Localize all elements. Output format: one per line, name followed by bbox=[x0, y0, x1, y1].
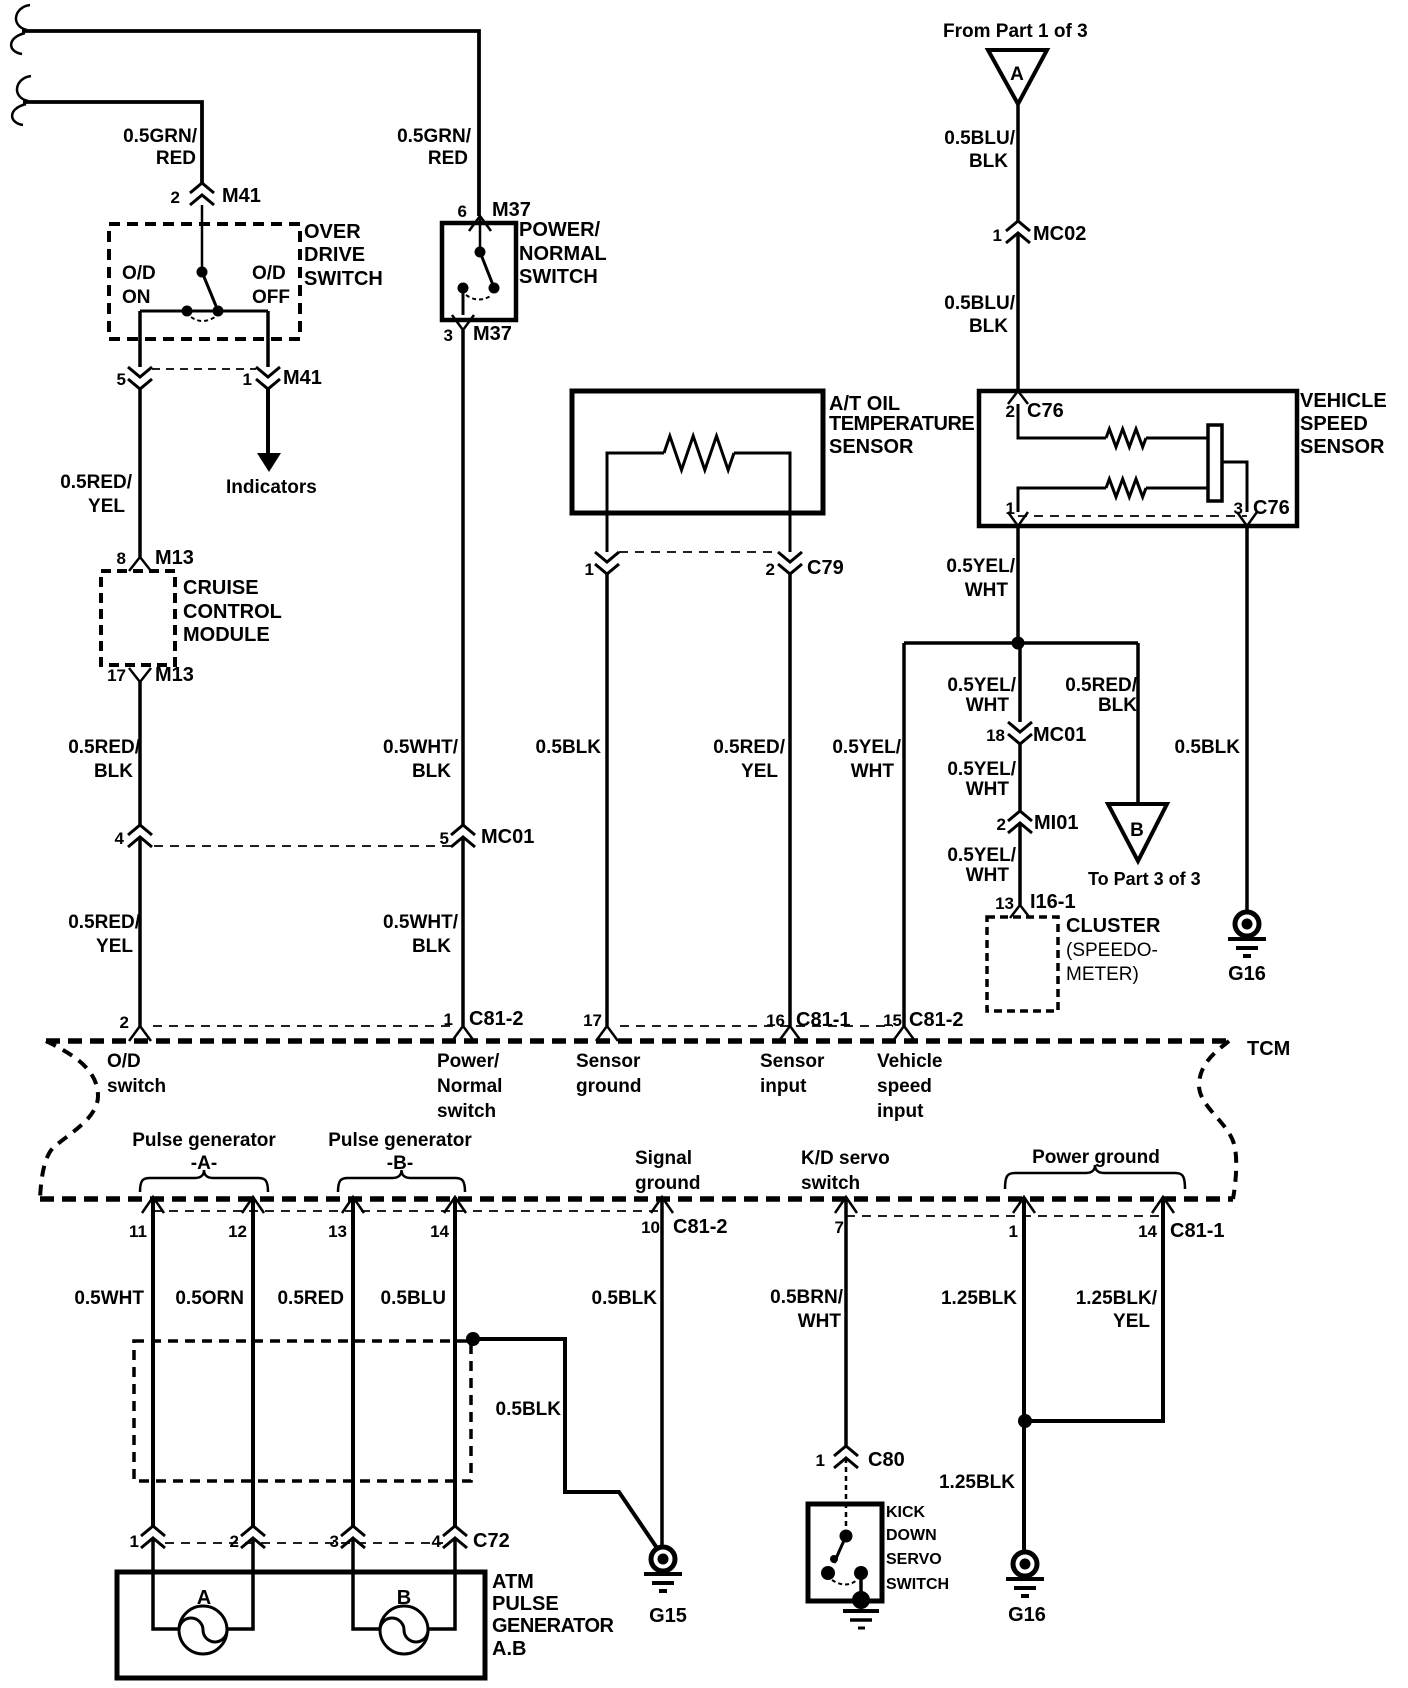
svg-text:NORMAL: NORMAL bbox=[519, 243, 607, 265]
connector C81-2 pin 1 at TCM bbox=[452, 1026, 474, 1041]
wire: O/D ON contact down to M41 pin 5 bbox=[138, 311, 142, 367]
svg-text:C81-2: C81-2 bbox=[673, 1216, 727, 1238]
svg-text:POWER/: POWER/ bbox=[519, 219, 601, 241]
svg-text:8: 8 bbox=[117, 549, 126, 568]
svg-text:1.25BLK: 1.25BLK bbox=[939, 1472, 1015, 1493]
connector C76 pin 3 bbox=[1237, 512, 1257, 526]
svg-text:TEMPERATURE: TEMPERATURE bbox=[829, 413, 974, 435]
svg-text:1: 1 bbox=[993, 226, 1002, 245]
svg-text:RED: RED bbox=[428, 148, 468, 169]
svg-text:13: 13 bbox=[995, 894, 1014, 913]
svg-text:0.5RED: 0.5RED bbox=[277, 1288, 344, 1309]
svg-text:MC02: MC02 bbox=[1033, 223, 1086, 245]
svg-text:0.5BLK: 0.5BLK bbox=[1175, 737, 1241, 758]
svg-text:CRUISE: CRUISE bbox=[183, 577, 259, 599]
connector MC01 pin 4 bbox=[128, 825, 152, 835]
svg-text:TCM: TCM bbox=[1247, 1038, 1290, 1060]
svg-text:BLK: BLK bbox=[412, 761, 451, 782]
svg-text:16: 16 bbox=[766, 1011, 785, 1030]
wire: M41 pin 5 to cruise control module pin 8 bbox=[138, 389, 142, 557]
svg-text:C81-2: C81-2 bbox=[909, 1009, 963, 1031]
svg-text:G16: G16 bbox=[1008, 1604, 1046, 1626]
svg-text:YEL: YEL bbox=[88, 496, 125, 517]
connector MC01 pin 18 bbox=[1008, 722, 1032, 732]
svg-text:Power/: Power/ bbox=[437, 1051, 500, 1072]
svg-text:Pulse generator: Pulse generator bbox=[328, 1130, 472, 1151]
svg-text:A.B: A.B bbox=[492, 1638, 526, 1660]
ground G15 bbox=[651, 1547, 675, 1571]
wire: sensor pin 2 stub bbox=[789, 513, 792, 552]
svg-text:MODULE: MODULE bbox=[183, 624, 270, 646]
wire: reed to C76 pin 3 bbox=[1222, 462, 1247, 512]
svg-text:0.5BLU/: 0.5BLU/ bbox=[944, 128, 1015, 149]
svg-text:-B-: -B- bbox=[387, 1153, 413, 1174]
svg-text:K/D servo: K/D servo bbox=[801, 1148, 890, 1169]
ground (kick down servo switch case) bbox=[852, 1591, 870, 1609]
TCM dashed outline left wave bbox=[40, 1041, 98, 1199]
junction dot (power ground) bbox=[1018, 1414, 1032, 1428]
svg-text:B: B bbox=[397, 1587, 411, 1609]
svg-text:0.5WHT/: 0.5WHT/ bbox=[383, 737, 459, 758]
wire: TCM pin 10 signal ground to G15 bbox=[660, 1197, 664, 1547]
dashed connector line M41 pins 5-1 bbox=[152, 368, 256, 370]
svg-text:1.25BLK: 1.25BLK bbox=[941, 1288, 1017, 1309]
svg-text:ON: ON bbox=[122, 287, 151, 308]
ground G16 (power ground) bbox=[1013, 1552, 1037, 1576]
connector C79 pin 1 bbox=[595, 552, 619, 562]
svg-text:C81-2: C81-2 bbox=[469, 1008, 523, 1030]
svg-text:input: input bbox=[877, 1101, 924, 1122]
wire: sensor element leads bbox=[607, 453, 664, 513]
svg-text:0.5RED/: 0.5RED/ bbox=[60, 472, 133, 493]
connector M37 pin 6 bbox=[469, 216, 491, 231]
svg-text:C76: C76 bbox=[1253, 497, 1290, 519]
svg-text:G15: G15 bbox=[649, 1605, 687, 1627]
wire: M41 pin 2 into overdrive switch bbox=[201, 205, 204, 271]
TCM dashed outline top bbox=[46, 1038, 1229, 1044]
svg-text:0.5WHT/: 0.5WHT/ bbox=[383, 912, 459, 933]
svg-text:From Part 1 of 3: From Part 1 of 3 bbox=[943, 21, 1088, 42]
wire: pulse generator lead 0.5ORN bbox=[251, 1197, 255, 1526]
svg-text:BLK: BLK bbox=[969, 316, 1008, 337]
svg-text:17: 17 bbox=[583, 1011, 602, 1030]
svg-text:0.5BLK: 0.5BLK bbox=[536, 737, 602, 758]
svg-text:7: 7 bbox=[835, 1218, 844, 1237]
svg-text:0.5BLU: 0.5BLU bbox=[381, 1288, 446, 1309]
wire: C72 pin 2 to generator A bbox=[227, 1538, 253, 1629]
svg-text:1: 1 bbox=[1009, 1222, 1018, 1241]
wire: M37 pin 6 into switch bbox=[479, 218, 482, 250]
svg-text:10: 10 bbox=[641, 1218, 660, 1237]
svg-text:DOWN: DOWN bbox=[886, 1527, 937, 1544]
connector M37 pin 3 bbox=[452, 315, 474, 330]
svg-text:OFF: OFF bbox=[252, 287, 290, 308]
svg-text:M13: M13 bbox=[155, 664, 194, 686]
svg-text:I16-1: I16-1 bbox=[1030, 891, 1076, 913]
A/T oil temperature sensor box bbox=[572, 391, 823, 513]
connector MC02 pin 1 bbox=[1006, 221, 1030, 231]
svg-text:(SPEEDO-: (SPEEDO- bbox=[1066, 940, 1158, 961]
svg-text:5: 5 bbox=[440, 829, 449, 848]
wire: sensor input to TCM pin 16 bbox=[788, 574, 792, 1026]
svg-text:O/D: O/D bbox=[252, 263, 286, 284]
svg-text:CONTROL: CONTROL bbox=[183, 601, 282, 623]
svg-text:MI01: MI01 bbox=[1034, 812, 1078, 834]
svg-text:switch: switch bbox=[107, 1076, 166, 1097]
svg-text:SWITCH: SWITCH bbox=[519, 266, 598, 288]
svg-text:2: 2 bbox=[230, 1532, 239, 1551]
svg-text:ground: ground bbox=[635, 1173, 700, 1194]
svg-text:Normal: Normal bbox=[437, 1076, 502, 1097]
svg-text:VEHICLE: VEHICLE bbox=[1300, 390, 1387, 412]
ATM pulse generator box bbox=[117, 1572, 485, 1678]
svg-text:11: 11 bbox=[129, 1222, 147, 1241]
wire: TCM pin 14 power ground down and left to junction bbox=[1031, 1197, 1163, 1421]
wire: C80 pin 1 into kick down servo switch (dashed) bbox=[845, 1458, 848, 1532]
connector C72 pin 1 bbox=[141, 1526, 165, 1536]
svg-text:1: 1 bbox=[444, 1010, 453, 1029]
connector pin 14 C81-1 at TCM bottom bbox=[1152, 1197, 1174, 1213]
svg-text:SENSOR: SENSOR bbox=[1300, 436, 1385, 458]
svg-text:SENSOR: SENSOR bbox=[829, 436, 914, 458]
resistor (VSS lower) bbox=[1106, 479, 1146, 497]
dashed connector line pins 17-16-15 bbox=[620, 1025, 893, 1027]
shielding dashed box (pulse generator cable) bbox=[134, 1341, 471, 1481]
svg-text:C76: C76 bbox=[1027, 400, 1064, 422]
svg-text:Signal: Signal bbox=[635, 1148, 692, 1169]
dashed connector line pins 11-10 bbox=[153, 1210, 662, 1212]
TCM dashed outline right wave bbox=[1199, 1041, 1236, 1199]
wire: 0.5BLK shield drain to ground G15 bbox=[473, 1339, 657, 1548]
svg-text:Vehicle: Vehicle bbox=[877, 1051, 943, 1072]
connector C80 pin 1 bbox=[834, 1446, 858, 1456]
junction dot (vehicle speed signal) bbox=[1012, 637, 1025, 650]
wire: C72 pin 4 to generator B bbox=[428, 1538, 455, 1629]
brace (pulse generator A pins) bbox=[140, 1170, 268, 1192]
dashed connector line C79 pins 1-2 bbox=[619, 551, 778, 553]
svg-text:BLK: BLK bbox=[94, 761, 133, 782]
svg-text:1: 1 bbox=[816, 1451, 825, 1470]
connector pin 14 at TCM bottom bbox=[444, 1197, 466, 1213]
svg-text:Pulse generator: Pulse generator bbox=[132, 1130, 276, 1151]
svg-text:0.5YEL/: 0.5YEL/ bbox=[947, 845, 1016, 866]
svg-text:0.5YEL/: 0.5YEL/ bbox=[832, 737, 901, 758]
svg-text:GENERATOR: GENERATOR bbox=[492, 1615, 614, 1637]
svg-text:0.5BRN/: 0.5BRN/ bbox=[770, 1287, 844, 1308]
svg-text:3: 3 bbox=[444, 326, 453, 345]
kick down servo switch contacts bbox=[840, 1530, 853, 1543]
wire: triangle A to MC02 pin 1 bbox=[1016, 104, 1020, 221]
svg-text:O/D: O/D bbox=[122, 263, 156, 284]
svg-text:speed: speed bbox=[877, 1076, 932, 1097]
wire: junction down to MC01 pin 18 bbox=[1018, 643, 1022, 722]
svg-text:M41: M41 bbox=[283, 367, 322, 389]
svg-text:0.5GRN/: 0.5GRN/ bbox=[397, 126, 472, 147]
svg-text:YEL: YEL bbox=[1113, 1311, 1150, 1332]
connector pin 12 at TCM bottom bbox=[242, 1197, 264, 1213]
wire: TCM pin 7 to C80 pin 1 bbox=[844, 1197, 848, 1446]
dashed connector line C72 pins 1-4 bbox=[165, 1542, 443, 1544]
wire: pulse generator lead 0.5RED bbox=[351, 1197, 355, 1526]
connector pin 10 C81-2 at TCM bottom bbox=[651, 1197, 673, 1213]
wire: MC01 pin 18 to MI01 pin 2 bbox=[1018, 744, 1022, 811]
svg-text:C80: C80 bbox=[868, 1449, 905, 1471]
svg-text:0.5YEL/: 0.5YEL/ bbox=[946, 556, 1015, 577]
svg-text:12: 12 bbox=[228, 1222, 247, 1241]
svg-text:0.5BLK: 0.5BLK bbox=[592, 1288, 658, 1309]
resistor (VSS upper) bbox=[1106, 429, 1146, 447]
overdrive switch dashed box bbox=[109, 224, 300, 339]
svg-text:0.5RED/: 0.5RED/ bbox=[1065, 675, 1138, 696]
svg-text:O/D: O/D bbox=[107, 1051, 141, 1072]
connector C79 pin 2 bbox=[778, 552, 802, 562]
wire: C76 pin 3 to ground G16 bbox=[1245, 526, 1249, 913]
vehicle speed sensor internal wiring upper bbox=[1018, 404, 1106, 438]
power/normal switch contacts and lever bbox=[475, 247, 486, 258]
svg-text:C72: C72 bbox=[473, 1530, 510, 1552]
pulse generator A (AC source) bbox=[179, 1606, 227, 1654]
off-page connector triangle B bbox=[1108, 804, 1167, 861]
svg-text:5: 5 bbox=[117, 370, 126, 389]
svg-text:MC01: MC01 bbox=[1033, 724, 1086, 746]
wire arrow to Indicators bbox=[266, 389, 270, 455]
connector M13 pin 8 bbox=[129, 557, 151, 571]
svg-text:0.5GRN/: 0.5GRN/ bbox=[123, 126, 198, 147]
svg-text:SWITCH: SWITCH bbox=[886, 1576, 949, 1593]
svg-text:M41: M41 bbox=[222, 185, 261, 207]
svg-text:To Part 3 of 3: To Part 3 of 3 bbox=[1088, 869, 1201, 889]
connector MC01 pin 5 bbox=[451, 825, 475, 835]
cruise control module dashed box bbox=[101, 571, 175, 665]
svg-text:switch: switch bbox=[801, 1173, 860, 1194]
svg-text:3: 3 bbox=[330, 1532, 339, 1551]
svg-text:SPEED: SPEED bbox=[1300, 413, 1368, 435]
wire: 0.5GRN/RED feed from previous page to overdrive switch bbox=[23, 102, 202, 183]
cluster (speedometer) dashed box bbox=[987, 917, 1058, 1011]
connector I16-1 pin 13 bbox=[1010, 905, 1030, 918]
connector C72 pin 3 bbox=[341, 1526, 365, 1536]
svg-text:METER): METER) bbox=[1066, 964, 1139, 985]
svg-text:3: 3 bbox=[1234, 499, 1243, 518]
svg-text:0.5YEL/: 0.5YEL/ bbox=[947, 759, 1016, 780]
svg-text:2: 2 bbox=[120, 1013, 129, 1032]
dashed connector line C76 pins 1-3 bbox=[1018, 515, 1247, 517]
brace (pulse generator B pins) bbox=[338, 1170, 465, 1192]
svg-text:ground: ground bbox=[576, 1076, 641, 1097]
wire: branch to part 3 of 3 bbox=[1136, 643, 1140, 804]
svg-text:2: 2 bbox=[997, 815, 1006, 834]
wire: sensor ground to TCM pin 17 bbox=[605, 574, 609, 1026]
svg-text:Sensor: Sensor bbox=[576, 1051, 641, 1072]
wire: MC01 pin 5 down to TCM power/normal input bbox=[461, 837, 465, 1026]
overdrive switch contacts and lever bbox=[197, 267, 208, 278]
connector pin 11 at TCM bottom bbox=[142, 1197, 164, 1213]
svg-text:WHT: WHT bbox=[965, 580, 1009, 601]
wire: pulse generator lead 0.5WHT bbox=[151, 1197, 155, 1526]
svg-text:4: 4 bbox=[115, 829, 125, 848]
svg-text:PULSE: PULSE bbox=[492, 1593, 559, 1615]
svg-text:WHT: WHT bbox=[851, 761, 895, 782]
brace (power ground pins) bbox=[1005, 1165, 1185, 1189]
svg-text:4: 4 bbox=[432, 1532, 442, 1551]
connector C76 pin 2 bbox=[1008, 391, 1028, 404]
svg-text:B: B bbox=[1130, 820, 1144, 841]
vehicle speed sensor internal wiring lower bbox=[1018, 488, 1106, 512]
svg-text:1.25BLK/: 1.25BLK/ bbox=[1076, 1288, 1158, 1309]
wire: MC01 pin 4 down to TCM O/D switch input bbox=[138, 837, 142, 1026]
svg-text:15: 15 bbox=[883, 1011, 902, 1030]
kick down servo switch box bbox=[808, 1504, 882, 1601]
svg-text:Sensor: Sensor bbox=[760, 1051, 825, 1072]
svg-text:RED: RED bbox=[156, 148, 196, 169]
connector pin 1 at TCM bottom bbox=[1013, 1197, 1035, 1213]
svg-text:1: 1 bbox=[1006, 499, 1015, 518]
svg-text:WHT: WHT bbox=[966, 865, 1010, 886]
svg-text:OVER: OVER bbox=[304, 221, 361, 243]
svg-text:WHT: WHT bbox=[798, 1311, 842, 1332]
resistor (A/T oil temperature sensor element) bbox=[664, 436, 734, 470]
wire: TCM pin 1 power ground down to junction bbox=[1022, 1197, 1026, 1421]
connector C76 pin 1 bbox=[1008, 512, 1028, 526]
svg-text:YEL: YEL bbox=[741, 761, 778, 782]
svg-text:17: 17 bbox=[107, 666, 126, 685]
wire: MC02 pin 1 to vehicle speed sensor pin 2 bbox=[1016, 233, 1020, 391]
off-page connector triangle A bbox=[988, 50, 1047, 104]
svg-text:14: 14 bbox=[1138, 1222, 1157, 1241]
svg-text:input: input bbox=[760, 1076, 807, 1097]
svg-text:SWITCH: SWITCH bbox=[304, 268, 383, 290]
svg-text:14: 14 bbox=[430, 1222, 449, 1241]
svg-text:BLK: BLK bbox=[1098, 695, 1137, 716]
svg-text:C81-1: C81-1 bbox=[1170, 1220, 1224, 1242]
svg-text:SERVO: SERVO bbox=[886, 1551, 942, 1568]
connector C81-2 pin 2 at TCM bbox=[129, 1026, 151, 1041]
connector C72 pin 4 bbox=[443, 1526, 467, 1536]
dashed connector line C81-2 pin2 - pin1 bbox=[153, 1025, 451, 1027]
svg-text:C81-1: C81-1 bbox=[796, 1009, 850, 1031]
svg-text:ATM: ATM bbox=[492, 1571, 534, 1593]
wire: sensor pin 1 stub bbox=[606, 513, 609, 552]
dashed connector line pins 7-14 bbox=[846, 1215, 1161, 1217]
connector C72 pin 2 bbox=[241, 1526, 265, 1536]
svg-text:switch: switch bbox=[437, 1101, 496, 1122]
connector M41 pin 1 bbox=[256, 367, 280, 377]
svg-text:A: A bbox=[197, 1587, 211, 1609]
svg-text:0.5ORN: 0.5ORN bbox=[175, 1288, 244, 1309]
svg-text:WHT: WHT bbox=[966, 779, 1010, 800]
connector M41 pin 2 bbox=[190, 183, 214, 193]
svg-text:0.5RED/: 0.5RED/ bbox=[68, 912, 141, 933]
svg-text:C79: C79 bbox=[807, 557, 844, 579]
reed element (VSS) bbox=[1208, 425, 1222, 501]
svg-text:KICK: KICK bbox=[886, 1504, 926, 1521]
svg-text:2: 2 bbox=[171, 188, 180, 207]
svg-text:0.5RED/: 0.5RED/ bbox=[713, 737, 786, 758]
connector M41 pin 5 bbox=[128, 367, 152, 377]
svg-text:A/T OIL: A/T OIL bbox=[829, 393, 900, 415]
svg-text:6: 6 bbox=[458, 202, 467, 221]
svg-text:0.5BLU/: 0.5BLU/ bbox=[944, 293, 1015, 314]
svg-text:13: 13 bbox=[328, 1222, 347, 1241]
connector MI01 pin 2 bbox=[1008, 811, 1032, 821]
connector C81-1 pin 17 at TCM bbox=[596, 1026, 618, 1041]
wire: O/D OFF contact down to M41 pin 1 bbox=[266, 311, 270, 367]
svg-text:0.5BLK: 0.5BLK bbox=[496, 1399, 562, 1420]
dashed connector line MC01 pins 4-5 bbox=[154, 845, 451, 847]
wire: junction horizontal to speed-input branch and part-3 branch bbox=[904, 641, 1138, 645]
wire: C72 pin 1 to generator A bbox=[153, 1538, 179, 1629]
svg-text:0.5YEL/: 0.5YEL/ bbox=[947, 675, 1016, 696]
svg-text:Indicators: Indicators bbox=[226, 477, 317, 498]
wire: M13 pin 17 down to MC01 pin 4 bbox=[138, 682, 142, 825]
svg-text:G16: G16 bbox=[1228, 963, 1266, 985]
svg-text:Power ground: Power ground bbox=[1032, 1147, 1160, 1168]
svg-text:BLK: BLK bbox=[969, 151, 1008, 172]
svg-text:M13: M13 bbox=[155, 547, 194, 569]
svg-text:DRIVE: DRIVE bbox=[304, 244, 365, 266]
vehicle speed sensor box bbox=[979, 391, 1297, 526]
svg-text:1: 1 bbox=[585, 560, 594, 579]
svg-text:0.5WHT: 0.5WHT bbox=[74, 1288, 144, 1309]
svg-text:2: 2 bbox=[766, 560, 775, 579]
svg-text:0.5RED/: 0.5RED/ bbox=[68, 737, 141, 758]
pulse generator B (AC source) bbox=[380, 1606, 428, 1654]
svg-text:YEL: YEL bbox=[96, 936, 133, 957]
wire: M37 pin 3 down to MC01 pin 5 bbox=[461, 330, 465, 825]
power/normal switch box bbox=[442, 223, 516, 320]
connector pin 13 at TCM bottom bbox=[342, 1197, 364, 1213]
wire: pulse generator lead 0.5BLU bbox=[453, 1197, 457, 1526]
wire: junction down to ground G16 bbox=[1022, 1421, 1026, 1553]
svg-text:A: A bbox=[1010, 64, 1024, 85]
svg-text:1: 1 bbox=[130, 1532, 139, 1551]
svg-text:MC01: MC01 bbox=[481, 826, 534, 848]
connector C81-2 pin 15 at TCM bbox=[893, 1026, 915, 1041]
svg-text:1: 1 bbox=[243, 370, 252, 389]
svg-text:18: 18 bbox=[986, 726, 1005, 745]
junction dot (shield drain) bbox=[466, 1332, 480, 1346]
svg-text:M37: M37 bbox=[473, 323, 512, 345]
svg-text:CLUSTER: CLUSTER bbox=[1066, 915, 1161, 937]
connector C81-1 pin 16 at TCM bbox=[779, 1026, 801, 1041]
connector pin 7 at TCM bottom bbox=[835, 1197, 857, 1213]
continuation break symbol (lower feed wire) bbox=[12, 76, 31, 125]
svg-text:BLK: BLK bbox=[412, 936, 451, 957]
svg-text:WHT: WHT bbox=[966, 695, 1010, 716]
wire: MI01 pin 2 to cluster pin 13 bbox=[1018, 823, 1022, 905]
TCM dashed outline bottom bbox=[40, 1196, 1233, 1202]
svg-text:M37: M37 bbox=[492, 199, 531, 221]
wire: C72 pin 3 to generator B bbox=[353, 1538, 380, 1629]
wire: C76 pin 1 down to junction bbox=[1016, 526, 1020, 643]
ground G16 (vehicle speed sensor) bbox=[1235, 912, 1259, 936]
wire: 0.5GRN/RED feed from previous page to power/normal switch pin 6 bbox=[22, 31, 479, 216]
wire: branch down to TCM vehicle speed input pin 15 bbox=[902, 643, 906, 1026]
connector M13 pin 17 bbox=[129, 668, 151, 682]
svg-text:2: 2 bbox=[1006, 402, 1015, 421]
continuation break symbol (upper feed wire) bbox=[11, 5, 30, 54]
